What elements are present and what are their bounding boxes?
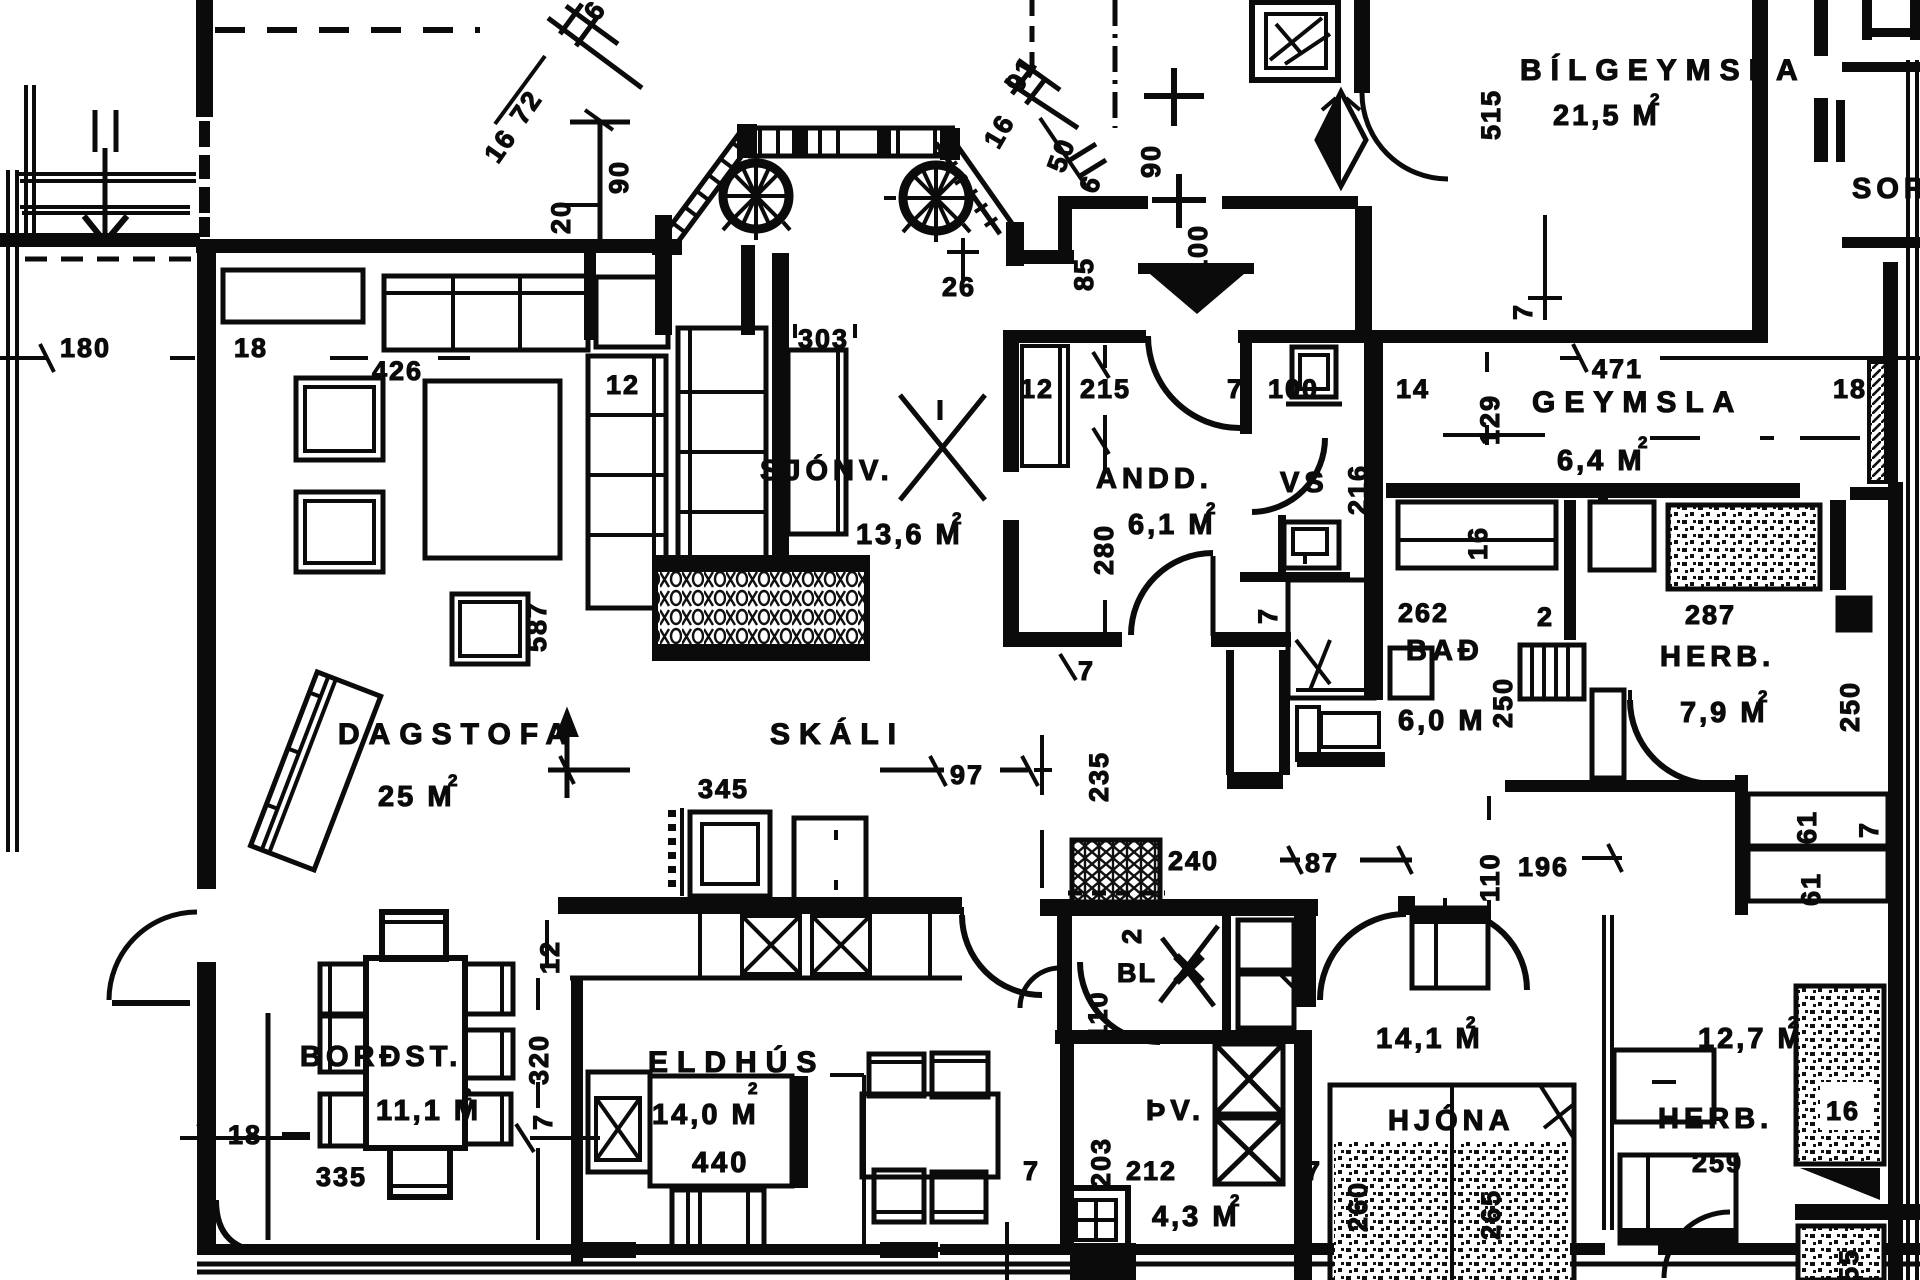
dim ticks west 18 xyxy=(180,1124,310,1152)
bottom outer wall main xyxy=(197,1244,886,1255)
vs lower wall stubs xyxy=(1278,515,1286,573)
hjona west wall upper xyxy=(1294,899,1316,1007)
svg-text:GEYMSLA: GEYMSLA xyxy=(1532,386,1743,419)
chairs west xyxy=(320,964,366,1014)
svg-text:110: 110 xyxy=(1083,990,1113,1040)
svg-text:7: 7 xyxy=(1253,607,1283,624)
bookshelf column 1 xyxy=(588,356,666,608)
kitchen counter line under wall xyxy=(570,976,962,981)
herb bed xyxy=(1620,1155,1736,1243)
coffee table xyxy=(425,381,560,558)
svg-text:2: 2 xyxy=(952,509,961,528)
svg-text:7: 7 xyxy=(1305,1156,1322,1186)
svg-text:2: 2 xyxy=(448,771,457,790)
stippled bed herb upper xyxy=(1668,505,1820,589)
svg-text:587: 587 xyxy=(522,601,552,652)
svg-text:287: 287 xyxy=(1685,600,1736,630)
door panel herb xyxy=(1592,690,1624,778)
dining table xyxy=(366,958,465,1148)
svg-text:335: 335 xyxy=(316,1162,367,1192)
svg-text:HJÓNA: HJÓNA xyxy=(1388,1103,1515,1137)
left edge line xyxy=(830,1075,864,1250)
svg-text:2: 2 xyxy=(1638,433,1647,452)
wall stub herb west xyxy=(1598,487,1608,500)
svg-text:440: 440 xyxy=(692,1147,749,1179)
svg-text:BÍLGEYMSLA: BÍLGEYMSLA xyxy=(1520,53,1807,87)
svg-text:2: 2 xyxy=(1206,499,1215,518)
SOR west wall segments xyxy=(1814,0,1828,56)
svg-text:260: 260 xyxy=(1343,1181,1373,1232)
west wall below door xyxy=(197,962,216,1250)
chair top-right xyxy=(932,1053,988,1097)
piano angled xyxy=(251,672,381,870)
svg-text:25 M: 25 M xyxy=(378,781,454,813)
svg-text:196: 196 xyxy=(1518,852,1569,882)
svg-text:180: 180 xyxy=(60,333,111,363)
low cabinet at north wall xyxy=(223,270,363,322)
chair north xyxy=(382,912,446,959)
armchair 1 xyxy=(296,378,383,460)
ceiling fan wheel left xyxy=(723,163,790,240)
east outer wall main xyxy=(1888,482,1903,1280)
centerline cross 2 xyxy=(1152,174,1206,228)
hjona closet xyxy=(1412,908,1488,988)
svg-text:90: 90 xyxy=(604,160,634,194)
radiator dots xyxy=(668,810,676,894)
chairs east xyxy=(465,964,513,1014)
washer X box 2 xyxy=(1215,1118,1283,1184)
svg-text:7: 7 xyxy=(1078,656,1095,686)
garage side dim 7 xyxy=(1528,215,1562,320)
svg-text:90: 90 xyxy=(1136,144,1166,178)
carport west boundary double line xyxy=(26,85,34,245)
top-right corner boxes xyxy=(1862,0,1872,40)
west wall main (dagstofa) xyxy=(197,247,216,889)
pv cell divider xyxy=(1222,915,1231,1033)
wall below herb door xyxy=(1505,780,1747,792)
carport drain arrow xyxy=(103,148,108,240)
east wall corner vertical xyxy=(1883,262,1898,482)
washer X box 1 xyxy=(1215,1044,1283,1114)
geymsla south wall xyxy=(1386,483,1800,498)
counter sink X boxes xyxy=(742,916,800,974)
right stipple closet lower xyxy=(1798,1226,1884,1280)
garage west wall top stub xyxy=(1354,0,1370,93)
bath sink xyxy=(1390,648,1432,698)
carport north wall band xyxy=(0,233,200,247)
svg-text:2: 2 xyxy=(1230,1191,1239,1210)
chair bottom-right xyxy=(932,1172,986,1222)
svg-text:BAÐ: BAÐ xyxy=(1406,635,1484,667)
bookshelf column 2 xyxy=(678,328,766,608)
fridge boxes right cell xyxy=(1238,920,1294,970)
kitchen divider wall east part xyxy=(1040,899,1318,916)
svg-text:55: 55 xyxy=(1834,1248,1864,1280)
bottom wall right part xyxy=(1312,1243,1605,1255)
chair south xyxy=(390,1148,450,1197)
svg-text:345: 345 xyxy=(698,774,749,804)
wall pier at bay corner xyxy=(584,240,596,340)
porch wall lower band xyxy=(1018,250,1074,264)
right stipple closet upper xyxy=(1796,986,1884,1164)
corridor door arcs to skali xyxy=(962,915,1042,995)
svg-text:262: 262 xyxy=(1398,598,1449,628)
dim line left of 426 xyxy=(330,356,470,360)
ANDD south wall xyxy=(1018,632,1122,647)
corridor door arc right xyxy=(1447,910,1527,990)
svg-text:216: 216 xyxy=(1343,464,1373,515)
north wall of dagstofa xyxy=(196,239,680,253)
bay vertical dim with T bar xyxy=(570,122,630,240)
porch wall vertical jog xyxy=(1058,196,1072,258)
svg-text:SOR: SOR xyxy=(1852,173,1920,205)
pv east thick wall xyxy=(1294,1030,1312,1280)
svg-text:12: 12 xyxy=(606,370,640,400)
svg-text:HERB.: HERB. xyxy=(1660,641,1775,673)
pv south wall of upper cell xyxy=(1055,1030,1296,1044)
svg-text:SJÓNV.: SJÓNV. xyxy=(760,453,894,487)
svg-text:14,0 M: 14,0 M xyxy=(652,1099,759,1131)
SOR horizontal walls xyxy=(1842,62,1920,72)
skali dashed vertical dim xyxy=(1040,735,1044,888)
svg-text:265: 265 xyxy=(1476,1189,1506,1240)
west wall upper hatched part xyxy=(199,121,210,147)
svg-text:16: 16 xyxy=(1826,1096,1860,1126)
ANDD west wall upper xyxy=(1003,330,1019,472)
svg-text:DAGSTOFA: DAGSTOFA xyxy=(338,718,576,751)
svg-text:87: 87 xyxy=(1305,848,1339,878)
svg-text:215: 215 xyxy=(1080,374,1131,404)
west exterior door leaf xyxy=(112,1000,190,1006)
fireplace cross xyxy=(900,395,985,500)
svg-text:426: 426 xyxy=(372,356,423,386)
entrance door arc into andd xyxy=(1148,336,1240,428)
desk herb xyxy=(1614,1050,1714,1122)
kitchen divider wall west part xyxy=(558,897,962,914)
washbasin dark herb xyxy=(1838,598,1870,630)
armchair 2 xyxy=(296,492,383,572)
svg-text:7: 7 xyxy=(1508,303,1538,320)
entrance porch top wall xyxy=(1058,196,1148,209)
svg-text:129: 129 xyxy=(1475,394,1505,445)
svg-text:100: 100 xyxy=(1183,224,1213,275)
garage east wall xyxy=(1752,0,1768,337)
vs sink xyxy=(1284,522,1339,568)
wall between VS corridor and geymsla xyxy=(1364,343,1383,700)
dim line 180 xyxy=(0,356,195,360)
geymsla dim line top xyxy=(1560,356,1920,360)
svg-text:250: 250 xyxy=(1835,681,1865,732)
svg-text:ÞV.: ÞV. xyxy=(1146,1095,1205,1127)
skali/sjonv divider wall xyxy=(772,253,789,641)
chair top-left xyxy=(869,1054,924,1096)
wall between closets xyxy=(1564,500,1576,640)
wall right of stipple xyxy=(1830,500,1846,590)
svg-text:7: 7 xyxy=(528,1113,558,1130)
svg-text:12: 12 xyxy=(535,940,565,974)
bottom wall pillars xyxy=(574,1242,636,1258)
svg-text:259: 259 xyxy=(1692,1148,1743,1178)
bottom terrace lines xyxy=(197,1264,1920,1272)
skylight picture box xyxy=(1252,2,1338,80)
svg-text:ANDD.: ANDD. xyxy=(1096,463,1213,495)
svg-text:VS: VS xyxy=(1280,467,1329,499)
svg-text:2: 2 xyxy=(748,1079,757,1098)
diagonal dim ticks right of bay xyxy=(1005,60,1078,128)
hall cabinet 2 xyxy=(794,818,866,900)
toilet xyxy=(1292,347,1336,397)
hall cabinet 1 xyxy=(690,812,770,896)
hjona door pillar xyxy=(1398,896,1415,915)
svg-text:471: 471 xyxy=(1592,354,1643,384)
hatched wall segment east xyxy=(1869,362,1886,482)
pv west wall xyxy=(1057,914,1072,1044)
dim 303 line xyxy=(795,324,855,338)
closet white box 2 xyxy=(1590,502,1654,570)
wall between ANDD and VS xyxy=(1240,330,1252,434)
shower stall xyxy=(1288,580,1374,698)
south wall of garage / top wall of middle row xyxy=(1003,330,1146,343)
rotated 12 tick xyxy=(545,920,549,966)
svg-text:97: 97 xyxy=(950,760,984,790)
sofa at north wall xyxy=(384,276,588,350)
closets 61 xyxy=(1748,794,1888,846)
entrance arrow xyxy=(1138,263,1254,314)
diagonal dim ticks top-left of bay xyxy=(548,6,642,88)
bathtub xyxy=(1321,713,1379,747)
right wedge xyxy=(1800,1168,1880,1200)
andd dim ticks xyxy=(1093,345,1109,469)
geymsla dim line lower dashed xyxy=(1443,435,1860,438)
svg-text:12: 12 xyxy=(1020,374,1054,404)
svg-text:18: 18 xyxy=(1833,374,1867,404)
island counter xyxy=(650,1076,792,1186)
ceiling fan wheel right xyxy=(884,165,970,242)
svg-text:13,6 M: 13,6 M xyxy=(856,519,963,551)
svg-text:4,3 M: 4,3 M xyxy=(1152,1201,1240,1233)
svg-text:BORÐST.: BORÐST. xyxy=(300,1041,462,1073)
svg-text:26: 26 xyxy=(942,272,976,302)
svg-text:20: 20 xyxy=(546,200,576,234)
plot boundary west double line xyxy=(8,170,17,852)
eldhus table xyxy=(862,1094,998,1177)
island stove unit xyxy=(588,1072,650,1172)
island wall line xyxy=(571,980,583,1266)
carport dashed inner edge xyxy=(25,257,196,262)
svg-text:7: 7 xyxy=(1227,374,1244,404)
bath toilet xyxy=(1297,707,1319,760)
small table south xyxy=(672,1190,764,1252)
carport roof edge lines xyxy=(18,174,196,181)
dim ticks left kitchen xyxy=(516,1124,600,1152)
svg-text:6,4 M: 6,4 M xyxy=(1557,445,1645,477)
dryer appliance xyxy=(1064,1188,1128,1250)
andd closet xyxy=(1022,346,1068,466)
svg-text:280: 280 xyxy=(1089,524,1119,575)
svg-text:2: 2 xyxy=(1117,927,1147,944)
corridor walls by bath xyxy=(1226,650,1234,775)
west exterior door arc xyxy=(109,912,197,1000)
inner wall line borðst xyxy=(266,1013,271,1240)
svg-text:ELDHÚS: ELDHÚS xyxy=(648,1045,825,1079)
garage kite arrow xyxy=(1317,92,1366,186)
svg-text:320: 320 xyxy=(524,1034,554,1085)
vs door arc xyxy=(1252,437,1325,439)
svg-text:85: 85 xyxy=(1069,257,1099,291)
svg-text:61: 61 xyxy=(1796,872,1826,906)
west wall upper solid xyxy=(196,0,213,117)
dim lines 97 xyxy=(880,768,1028,773)
svg-text:18: 18 xyxy=(234,333,268,363)
right black band xyxy=(1795,1204,1920,1220)
dim line at 26 xyxy=(947,238,979,282)
herb door arc bottom xyxy=(1664,1212,1730,1278)
island east wall xyxy=(794,1076,808,1188)
svg-text:14: 14 xyxy=(1396,374,1430,404)
svg-text:18: 18 xyxy=(228,1120,262,1150)
bay window top band xyxy=(741,128,955,156)
ornamental sofa xyxy=(655,558,867,658)
ANDD west wall lower xyxy=(1003,520,1019,647)
svg-text:515: 515 xyxy=(1476,89,1506,140)
side cabinet right of sofa xyxy=(596,277,668,347)
herb west wall double line xyxy=(1604,915,1612,1230)
dim 16 right closet xyxy=(1820,1082,1872,1130)
svg-text:21,5 M: 21,5 M xyxy=(1553,100,1660,132)
svg-text:2: 2 xyxy=(1537,602,1554,632)
svg-text:240: 240 xyxy=(1168,846,1219,876)
top boundary dashed line xyxy=(215,27,480,33)
closet row under geymsla xyxy=(1398,502,1556,568)
bottom-left corner curve xyxy=(216,1200,270,1252)
bay window left diagonal xyxy=(655,131,755,254)
herb upper door arc xyxy=(1630,700,1714,784)
svg-text:SKÁLI: SKÁLI xyxy=(770,717,905,751)
dim 7 right of table xyxy=(180,912,513,1240)
vertical dim line right of eldhus xyxy=(1005,1222,1009,1280)
svg-text:212: 212 xyxy=(1126,1156,1177,1186)
radiator herb upper xyxy=(1520,645,1584,699)
svg-text:2: 2 xyxy=(1466,1013,1475,1032)
hjona door arc xyxy=(1320,914,1406,1000)
dim lines 87 xyxy=(1280,858,1412,863)
bay window right diagonal xyxy=(936,134,1013,234)
andd inner door arc xyxy=(1211,556,1216,636)
svg-text:303: 303 xyxy=(798,324,849,354)
dim line 196 xyxy=(1582,844,1622,872)
svg-text:203: 203 xyxy=(1086,1137,1116,1188)
pv door arc xyxy=(1080,962,1160,1042)
svg-text:BL: BL xyxy=(1117,958,1157,988)
hall woven table xyxy=(1072,840,1160,902)
garage west wall lower xyxy=(1355,206,1372,342)
small table lower xyxy=(452,594,528,664)
hjona bed xyxy=(1330,1085,1574,1280)
north arrow in dagstofa xyxy=(565,718,570,798)
tv cabinet xyxy=(788,350,846,534)
corridor door arc left xyxy=(1020,968,1060,1008)
pv west wall lower hatched xyxy=(1060,1044,1074,1249)
svg-text:HERB.: HERB. xyxy=(1658,1103,1773,1135)
svg-text:2: 2 xyxy=(1650,90,1659,109)
east boundary double line xyxy=(1906,60,1910,1280)
svg-text:61: 61 xyxy=(1792,810,1822,844)
svg-text:16: 16 xyxy=(1463,526,1493,560)
dashed line above kitchen wall xyxy=(1068,891,1165,896)
svg-text:7,9 M: 7,9 M xyxy=(1680,697,1768,729)
dash-dot centerlines at porch xyxy=(1030,0,1035,78)
bay right base wall xyxy=(1006,222,1024,266)
svg-text:7: 7 xyxy=(1854,821,1884,838)
svg-text:110: 110 xyxy=(1475,852,1505,902)
svg-text:2: 2 xyxy=(1758,687,1767,706)
bl sink X xyxy=(1160,926,1218,1006)
svg-text:7: 7 xyxy=(1023,1156,1040,1186)
garage door arc xyxy=(1362,93,1448,179)
svg-text:6,1 M: 6,1 M xyxy=(1128,509,1216,541)
bath south wall band xyxy=(1297,752,1385,767)
centerline cross 1 xyxy=(1144,68,1204,126)
bay corner piers xyxy=(737,124,757,158)
svg-text:2: 2 xyxy=(462,1085,471,1104)
svg-text:235: 235 xyxy=(1084,751,1114,802)
svg-text:6,0 M: 6,0 M xyxy=(1398,705,1486,737)
svg-text:250: 250 xyxy=(1488,677,1518,728)
chair bottom-left xyxy=(874,1170,924,1222)
